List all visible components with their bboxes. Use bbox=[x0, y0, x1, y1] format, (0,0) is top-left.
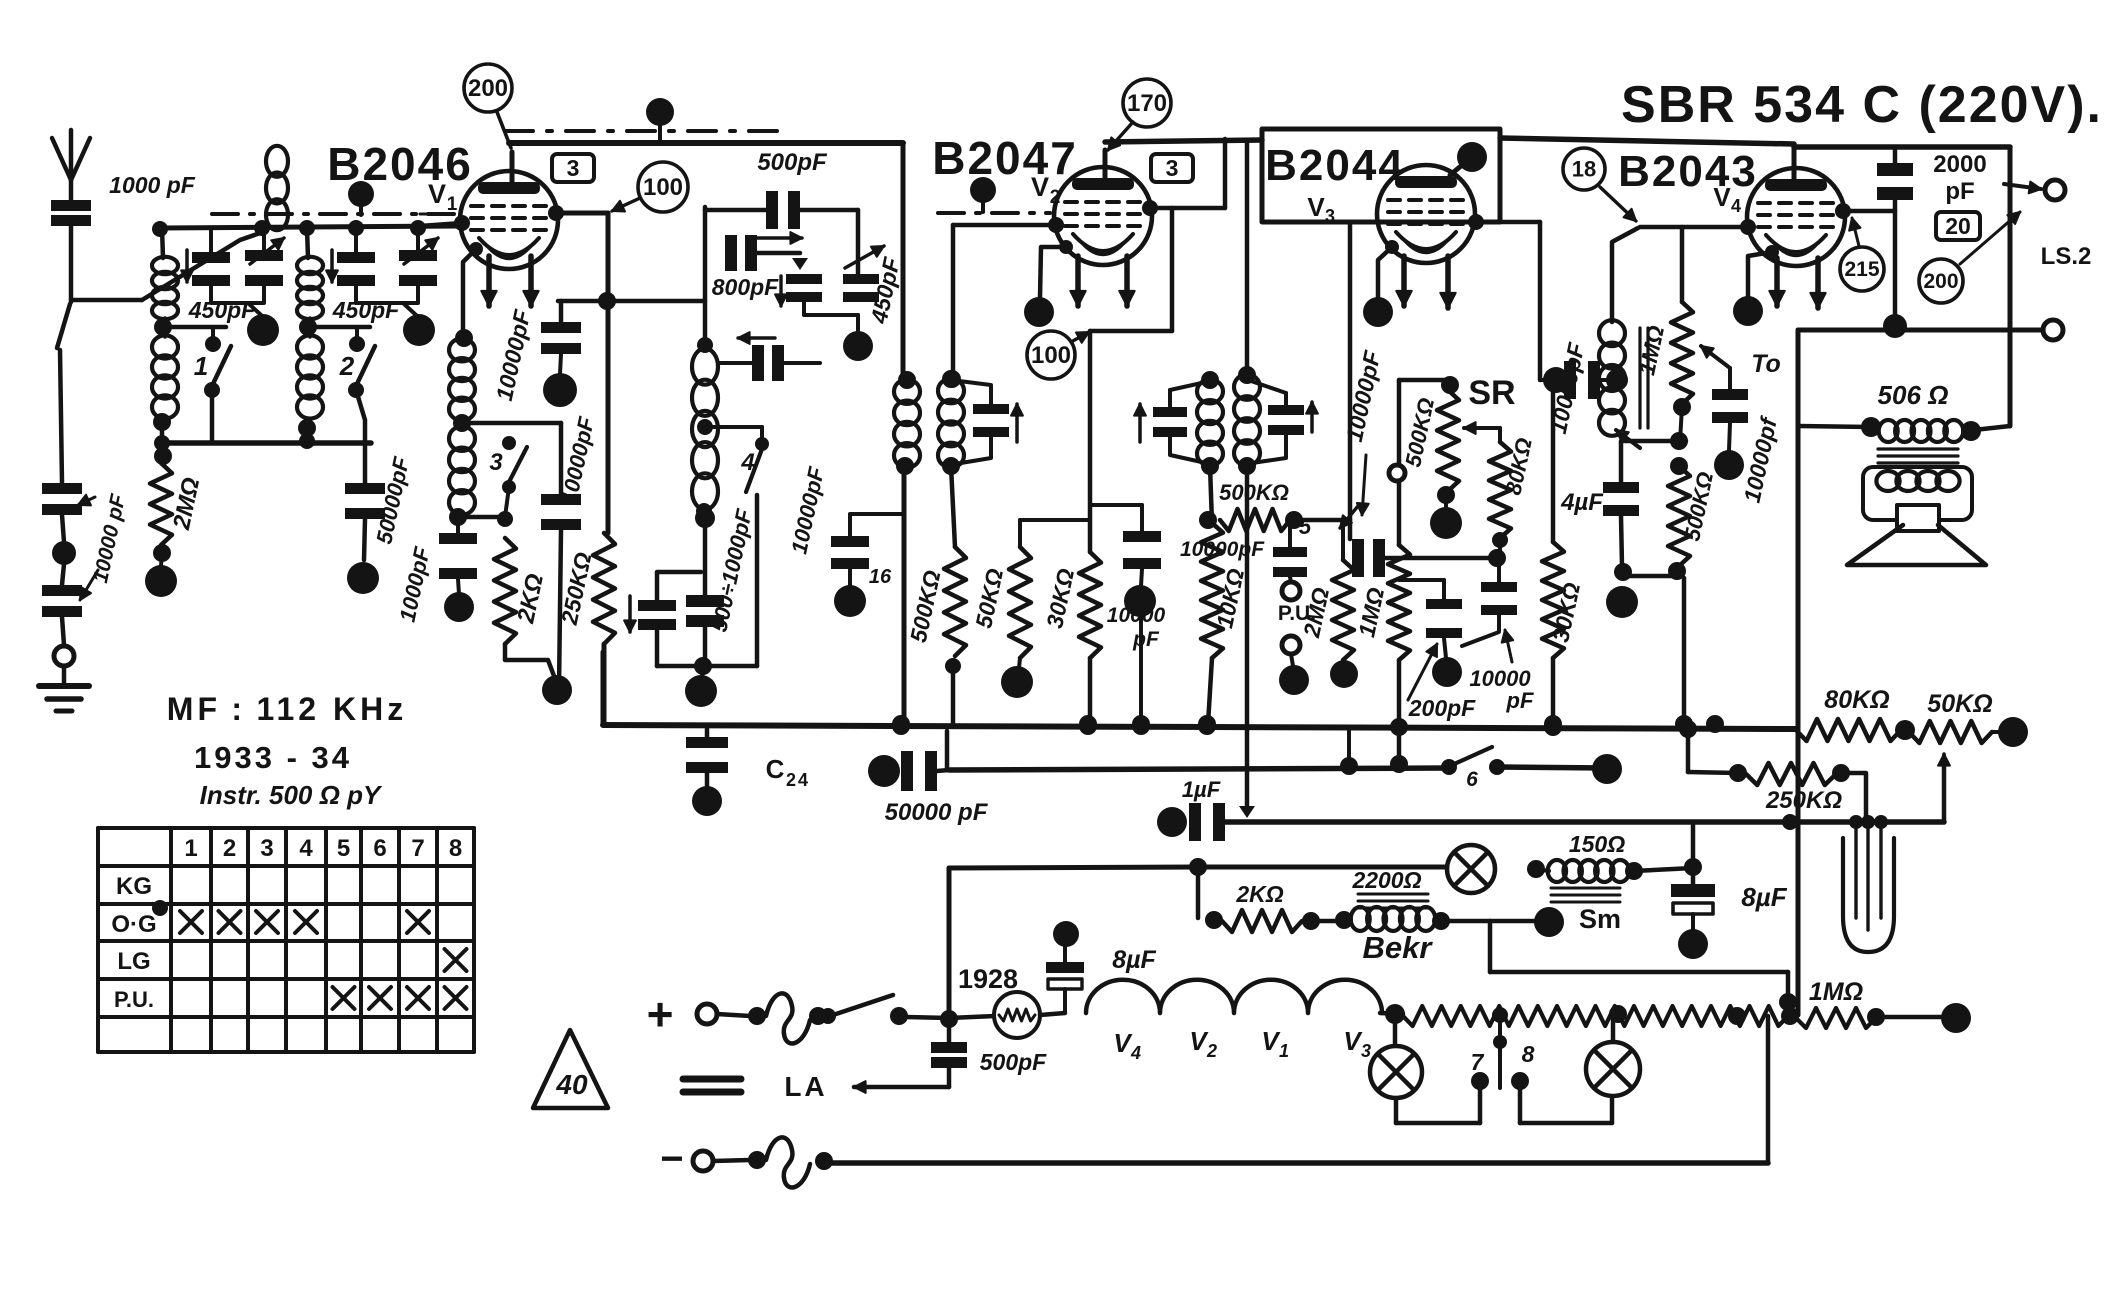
label 80K bbox=[1500, 436, 1536, 497]
svg-text:3: 3 bbox=[567, 155, 580, 181]
node V3 anode bbox=[1468, 214, 1540, 230]
svg-text:To: To bbox=[1751, 350, 1781, 378]
node V3 top blob bbox=[1450, 142, 1487, 175]
circle 200 screen volts bbox=[464, 64, 512, 148]
label 500K V4 bbox=[1679, 470, 1718, 543]
svg-text:V: V bbox=[1307, 192, 1325, 222]
ground bbox=[39, 666, 89, 711]
label 30K det bbox=[1547, 580, 1585, 644]
label 1M ps bbox=[1809, 978, 1863, 1006]
svg-text:4: 4 bbox=[1731, 196, 1741, 216]
svg-text:4: 4 bbox=[740, 449, 754, 476]
resistor 50K V2 bbox=[1001, 520, 1090, 698]
label 2200ohm bbox=[1351, 867, 1421, 893]
label 800pF bbox=[712, 274, 787, 306]
svg-text:4µF: 4µF bbox=[1560, 489, 1604, 516]
capacitor 10000pF V2 bbox=[1090, 505, 1161, 733]
capacitor 10000pF IF1 bbox=[831, 514, 904, 617]
svg-text:450pF: 450pF bbox=[188, 297, 256, 323]
circle 215 bbox=[1840, 218, 1884, 291]
wire 250K link bbox=[1679, 720, 1697, 772]
label Bekr bbox=[1363, 930, 1434, 965]
resistor 500K IF1 bbox=[944, 466, 966, 724]
label 10000pF rotated bbox=[78, 491, 130, 600]
capacitor padding fixed bbox=[786, 274, 822, 302]
capacitor 50000pF bbox=[345, 443, 385, 594]
svg-text:LS.2: LS.2 bbox=[2041, 243, 2092, 270]
label V2 bbox=[1031, 172, 1060, 208]
svg-text:1: 1 bbox=[184, 835, 197, 862]
svg-text:500KΩ: 500KΩ bbox=[1219, 480, 1289, 505]
label V1 bbox=[420, 179, 458, 215]
node 1uF blob bbox=[1157, 807, 1187, 837]
resistor 2K bbox=[494, 511, 554, 676]
capacitor 200pF bbox=[1399, 580, 1462, 687]
label 250K bbox=[556, 550, 597, 628]
label 10000pF det bbox=[1469, 630, 1534, 713]
label 500K IF1 bbox=[905, 568, 946, 645]
svg-text:215: 215 bbox=[1844, 258, 1879, 281]
capacitor 500pF LA bbox=[931, 1019, 967, 1087]
capacitor 10000pF V1 bbox=[541, 301, 581, 407]
capacitor padder A bbox=[638, 600, 676, 630]
label 2M bbox=[168, 475, 205, 533]
svg-text:2KΩ: 2KΩ bbox=[1235, 881, 1283, 907]
node padder bbox=[804, 302, 873, 361]
wire V2 cathode bbox=[1024, 240, 1073, 327]
svg-text:LG: LG bbox=[117, 948, 150, 975]
label 10000pF IF1 bbox=[786, 464, 829, 556]
capacitor 10000pF det bbox=[1462, 558, 1517, 646]
capacitor trimmer 1 bbox=[181, 228, 230, 286]
resistor 250K ps bbox=[1688, 763, 1866, 822]
svg-text:8µF: 8µF bbox=[1112, 946, 1156, 974]
label 1M V4 bbox=[1633, 323, 1669, 377]
node padder caps bottom bbox=[624, 596, 757, 707]
capacitor 500pF osc bbox=[705, 191, 858, 244]
junction dots bus1 bbox=[892, 717, 1562, 736]
svg-text:2: 2 bbox=[1050, 187, 1061, 208]
svg-text:2: 2 bbox=[223, 835, 236, 862]
label 50K ps bbox=[1927, 690, 1992, 718]
node blob top coupling bbox=[348, 181, 374, 215]
svg-text:pF: pF bbox=[1132, 628, 1160, 651]
node bottom blob left bbox=[542, 675, 572, 705]
wire V2 anode up bbox=[1223, 139, 1228, 208]
label 10000pF PU bbox=[1180, 538, 1265, 561]
resistor 1M ps bbox=[1781, 1003, 1971, 1033]
twisted coupling coil bbox=[266, 146, 288, 230]
label C24 bbox=[766, 754, 808, 790]
svg-text:1000 pF: 1000 pF bbox=[109, 172, 196, 198]
transformer speaker primary bbox=[1879, 420, 1964, 442]
resistor 500K SR bbox=[1430, 390, 1462, 539]
wire V3 grid vertical bbox=[1340, 222, 1358, 539]
svg-text:SBR 534 C (220V).: SBR 534 C (220V). bbox=[1621, 76, 2103, 134]
svg-text:7: 7 bbox=[1471, 1049, 1485, 1075]
wire choke to pot bbox=[1380, 1004, 1405, 1024]
wire cathode tap bbox=[462, 421, 561, 426]
lamp dial 3 bbox=[1586, 1014, 1640, 1096]
dash-dot line V2 bbox=[938, 211, 1050, 215]
resistor 1M V4 grid bbox=[1671, 227, 1693, 441]
resistor 500K detector bbox=[1199, 509, 1350, 539]
wire heater bus bbox=[949, 858, 1446, 876]
tube V1 bbox=[460, 152, 558, 269]
resistor 1M det bbox=[1388, 380, 1410, 773]
svg-text:5: 5 bbox=[337, 835, 350, 862]
capacitor IF2 left bbox=[1134, 382, 1206, 463]
node V2 grid bbox=[953, 217, 1064, 233]
label 2K bbox=[512, 571, 549, 626]
label 2M det bbox=[1298, 585, 1334, 640]
table wave bands bbox=[98, 828, 474, 1052]
svg-text:200: 200 bbox=[1923, 270, 1958, 293]
core 150ohm bbox=[1551, 888, 1620, 902]
svg-text:pF: pF bbox=[1506, 688, 1534, 713]
lamp dial 1 bbox=[1447, 845, 1495, 893]
circle 100 V1 bbox=[612, 162, 688, 212]
svg-text:MF : 112 KHz: MF : 112 KHz bbox=[167, 691, 407, 727]
capacitor 10000pF To bbox=[1701, 346, 1748, 480]
capacitor 8uF right bbox=[1671, 884, 1715, 959]
circle 100 V2 bbox=[1027, 331, 1089, 379]
terminal plus bbox=[647, 988, 717, 1040]
svg-text:500pF: 500pF bbox=[757, 149, 828, 176]
arrows V1 heater bbox=[481, 256, 538, 306]
svg-text:2: 2 bbox=[1206, 1041, 1217, 1061]
wire top rail far right bbox=[1794, 147, 2010, 441]
label B2046 bbox=[327, 138, 473, 190]
core IF3 bbox=[1640, 328, 1648, 428]
label 8uF left bbox=[1112, 946, 1156, 974]
wire osc coil bottom bbox=[695, 507, 715, 595]
switch pole 78 bbox=[1493, 1020, 1507, 1088]
label 50000pF bbox=[371, 454, 414, 546]
wire oscillator right edge bbox=[901, 143, 906, 380]
node tuning 1 bbox=[211, 286, 279, 346]
capacitor 50000pF bus bbox=[868, 731, 949, 791]
capacitor variable 450pF 1 bbox=[245, 228, 284, 286]
label B2044 bbox=[1265, 141, 1405, 190]
label 2K ps bbox=[1235, 881, 1283, 907]
terminal earth bbox=[54, 646, 74, 666]
label 500-1000pF bbox=[706, 506, 756, 634]
transformer IF1 secondary bbox=[938, 370, 964, 475]
node V1 anode right bbox=[548, 205, 608, 221]
label PU bbox=[1278, 602, 1316, 625]
coil L1b bbox=[152, 318, 178, 452]
coil 150ohm bbox=[1548, 858, 1702, 882]
label 10000pF mid bbox=[556, 414, 599, 506]
wire IF2 primary down bbox=[1239, 466, 1255, 818]
speaker body bbox=[1863, 467, 1972, 520]
capacitor 10000pF IF3 bbox=[1564, 361, 1610, 399]
svg-text:Sm: Sm bbox=[1579, 904, 1621, 934]
fuse minus bbox=[713, 1137, 833, 1187]
svg-text:1: 1 bbox=[194, 351, 208, 381]
svg-text:170: 170 bbox=[1127, 90, 1167, 117]
capacitor PU bbox=[1273, 520, 1307, 582]
label Sm bbox=[1534, 904, 1621, 937]
svg-text:500pF: 500pF bbox=[980, 1049, 1047, 1075]
svg-text:10000: 10000 bbox=[1107, 604, 1166, 627]
label 200pF bbox=[1408, 644, 1476, 721]
capacitor IF1 tuning bbox=[951, 380, 1023, 464]
triangle 40 bbox=[533, 1030, 608, 1108]
node padder caps top bbox=[657, 572, 701, 600]
node V4 anode bbox=[1835, 203, 1895, 219]
label 10000pF V2 bbox=[1107, 604, 1166, 651]
wire 500K to bus bbox=[1675, 578, 1724, 733]
choke heaters bbox=[1086, 980, 1382, 1013]
svg-text:4: 4 bbox=[798, 770, 808, 790]
wire top rail V2 bbox=[1105, 140, 1262, 142]
capacitor C24 bbox=[686, 729, 728, 816]
svg-text:506 Ω: 506 Ω bbox=[1878, 380, 1949, 410]
svg-text:1MΩ: 1MΩ bbox=[1809, 978, 1863, 1006]
symbol chassis LA bbox=[683, 1079, 741, 1092]
capacitor 10000pF antenna lower bbox=[42, 585, 82, 645]
svg-text:V: V bbox=[1031, 172, 1049, 202]
capacitor trimmer 2 bbox=[326, 220, 375, 286]
box B2044 bbox=[1262, 129, 1500, 222]
svg-text:O·G: O·G bbox=[111, 911, 156, 938]
label To bbox=[1751, 350, 1781, 378]
terminal LS bottom bbox=[2043, 320, 2063, 340]
capacitor 4uF bbox=[1603, 441, 1639, 618]
core Bekr bbox=[1358, 894, 1428, 908]
wire grid bus bbox=[152, 220, 461, 237]
wire top rail right bbox=[1500, 138, 1794, 144]
svg-text:3: 3 bbox=[260, 835, 273, 862]
capacitor 8uF left bbox=[1046, 921, 1084, 1012]
label 2000pF bbox=[1933, 151, 1986, 205]
wire antenna to coupling bbox=[71, 231, 266, 300]
resistor 30K V2 bbox=[1079, 552, 1101, 733]
capacitor 800pF bbox=[725, 235, 808, 271]
svg-text:5: 5 bbox=[1299, 514, 1312, 539]
label LS2 bbox=[2041, 243, 2092, 270]
transformer IF2 secondary bbox=[1197, 371, 1223, 475]
node antenna filter bbox=[52, 515, 76, 585]
label 500K SR bbox=[1400, 396, 1439, 469]
lamp dial 2 bbox=[1370, 1014, 1489, 1123]
wire V2 anode branch bbox=[1090, 208, 1172, 552]
node plus junction bbox=[940, 868, 958, 1028]
label 1933-34 bbox=[194, 740, 352, 775]
svg-text:450pF: 450pF bbox=[332, 297, 400, 323]
svg-text:C: C bbox=[766, 754, 785, 784]
svg-text:50000 pF: 50000 pF bbox=[885, 799, 989, 826]
label 506 bbox=[1878, 380, 1949, 410]
svg-text:8: 8 bbox=[1522, 1041, 1535, 1067]
capacitor AVC series bbox=[1352, 539, 1495, 577]
svg-text:16: 16 bbox=[869, 566, 892, 588]
coil V1 cathode upper bbox=[449, 338, 475, 432]
svg-text:10000pF: 10000pF bbox=[1180, 538, 1265, 561]
switch 2 bbox=[339, 327, 375, 443]
tube V3 bbox=[1377, 165, 1475, 263]
svg-text:8: 8 bbox=[449, 835, 462, 862]
node det cap left bbox=[1543, 367, 1569, 393]
arrows V3 heater bbox=[1396, 256, 1455, 308]
box 3 V2 bbox=[1151, 154, 1193, 182]
wire V4 grid bbox=[1640, 219, 1756, 235]
wire 858 drop bbox=[856, 210, 861, 274]
coil L2a bbox=[297, 220, 323, 336]
svg-text:100: 100 bbox=[643, 174, 683, 201]
svg-text:V: V bbox=[428, 179, 446, 209]
box 3 V1 bbox=[552, 154, 594, 182]
svg-text:20: 20 bbox=[1945, 213, 1971, 239]
label 50000pF bus bbox=[885, 799, 989, 826]
label LA bbox=[784, 1071, 827, 1102]
label 500pF osc bbox=[757, 149, 828, 176]
resistor 2M bbox=[145, 447, 177, 597]
capacitor 1uF bbox=[1182, 777, 1225, 841]
terminal PU 2 bbox=[1279, 636, 1309, 695]
node V1 grid bbox=[420, 215, 470, 231]
wire V4 cathode bbox=[1733, 245, 1779, 326]
capacitor 10000pF antenna upper bbox=[42, 483, 82, 515]
svg-text:B2046: B2046 bbox=[327, 138, 473, 190]
label 450pF 1 bbox=[188, 297, 256, 323]
arrows V2 heater bbox=[1070, 256, 1134, 306]
label 4uF bbox=[1560, 489, 1604, 516]
capacitor osc feedback bbox=[718, 332, 820, 381]
transformer IF2 primary bbox=[1234, 366, 1260, 475]
terminal PU 1 bbox=[1282, 582, 1300, 600]
label B2047 bbox=[932, 132, 1078, 184]
svg-text:6: 6 bbox=[373, 835, 386, 862]
wire V2 grid down bbox=[943, 225, 961, 388]
wire Sm branch bbox=[1490, 921, 1797, 1013]
dash-dot line V1 top bbox=[505, 129, 790, 133]
svg-text:150Ω: 150Ω bbox=[1569, 831, 1625, 857]
circle 200 output bbox=[1919, 212, 2020, 303]
label V1 choke bbox=[1261, 1026, 1289, 1061]
capacitor padder B bbox=[686, 595, 724, 627]
resistor 500K V4 bbox=[1628, 457, 1690, 580]
wire bus2 bbox=[949, 731, 1622, 784]
svg-text:LA: LA bbox=[784, 1071, 827, 1102]
coil V1 cathode lower bbox=[449, 426, 475, 526]
transformer IF1 primary bbox=[894, 371, 920, 475]
transformer IF3 coil bbox=[1599, 228, 1638, 436]
wire bus3 bbox=[1225, 754, 1950, 830]
wire 8uF right bbox=[1691, 822, 1696, 884]
label 150ohm bbox=[1569, 831, 1625, 857]
svg-text:3: 3 bbox=[489, 449, 503, 476]
svg-text:6: 6 bbox=[1466, 768, 1478, 791]
resistor 10K bbox=[1198, 466, 1223, 733]
label 500pF LA bbox=[980, 1049, 1047, 1075]
node tuning 2 bbox=[356, 286, 435, 346]
wire IF3 bottom bbox=[1616, 430, 1688, 450]
circle 170 bbox=[1108, 79, 1171, 150]
switch 4 bbox=[697, 419, 769, 666]
label 450pF 2 bbox=[332, 297, 400, 323]
wire bus1 bbox=[603, 652, 1796, 729]
svg-text:1: 1 bbox=[1279, 1041, 1289, 1061]
wire pot to bus4 bbox=[1766, 1016, 1771, 1163]
svg-text:+: + bbox=[647, 988, 674, 1040]
label Instr bbox=[200, 780, 383, 810]
svg-text:Bekr: Bekr bbox=[1363, 930, 1434, 965]
terminal LS top bbox=[2004, 180, 2065, 200]
wire V3 anode down bbox=[1540, 222, 1548, 380]
wire bus4 bbox=[828, 1160, 1768, 1166]
svg-text:4: 4 bbox=[299, 835, 313, 862]
lamp ballast 1928 bbox=[949, 992, 1065, 1038]
label 10000pf To bbox=[1739, 413, 1783, 504]
label MF bbox=[167, 691, 407, 727]
label contact 8 bbox=[1522, 1041, 1535, 1067]
label contact 7 bbox=[1471, 1049, 1485, 1075]
svg-text:2200Ω: 2200Ω bbox=[1351, 867, 1421, 893]
svg-text:7: 7 bbox=[411, 835, 424, 862]
wire osc left edge bbox=[703, 207, 708, 345]
capacitor series 1000pF bbox=[541, 423, 581, 688]
switch 6 bbox=[1441, 747, 1505, 791]
svg-text:80KΩ: 80KΩ bbox=[1824, 686, 1889, 714]
wire V4 anode long vertical bbox=[1796, 330, 1801, 1015]
svg-text:B2044: B2044 bbox=[1265, 141, 1405, 190]
resistor 250K bbox=[593, 533, 615, 724]
contact 8 wire bbox=[1511, 1072, 1612, 1123]
label 80K ps bbox=[1824, 686, 1889, 714]
switch mains bbox=[820, 995, 949, 1025]
switch 3 bbox=[489, 436, 527, 517]
label 1M det bbox=[1353, 585, 1389, 639]
coil oscillator bbox=[692, 337, 718, 519]
resistor potentiometer row bbox=[1403, 1005, 1788, 1026]
wire 301 row bbox=[558, 292, 705, 310]
node speaker feed bbox=[1798, 417, 1881, 437]
wire SR top bbox=[1399, 376, 1459, 394]
wire V3 cathode bbox=[1363, 240, 1399, 327]
fuse plus bbox=[717, 993, 827, 1043]
label V4 bbox=[1713, 182, 1741, 216]
coil L2b bbox=[297, 318, 323, 443]
svg-text:−: − bbox=[660, 1137, 683, 1181]
svg-text:800pF: 800pF bbox=[712, 274, 779, 300]
label 10000pF V1 bbox=[491, 307, 536, 403]
wire 517 row bbox=[458, 515, 505, 520]
svg-text:3: 3 bbox=[1361, 1041, 1371, 1061]
label 10K bbox=[1211, 566, 1249, 630]
label 1928 bbox=[958, 964, 1018, 994]
speaker cone bbox=[1847, 525, 1986, 565]
svg-text:1933 - 34: 1933 - 34 bbox=[194, 740, 352, 775]
svg-text:3: 3 bbox=[1166, 155, 1179, 181]
label 500K detector bbox=[1219, 480, 1289, 505]
resistor 50K ps bbox=[1909, 717, 2028, 747]
wire IF1 primary down bbox=[892, 466, 910, 733]
svg-text:P.U.: P.U. bbox=[114, 987, 154, 1012]
capacitor 2000pF bbox=[1877, 147, 1913, 326]
title SBR bbox=[1621, 76, 2103, 134]
choke Bekr bbox=[1335, 907, 1541, 931]
label 8uF right bbox=[1741, 882, 1787, 912]
circle 18 bbox=[1563, 148, 1636, 221]
svg-text:2: 2 bbox=[786, 770, 796, 790]
speaker magnet bbox=[1897, 505, 1939, 531]
node blob V2 left bbox=[970, 177, 996, 212]
svg-text:8µF: 8µF bbox=[1741, 882, 1787, 912]
svg-text:1µF: 1µF bbox=[1182, 777, 1221, 802]
